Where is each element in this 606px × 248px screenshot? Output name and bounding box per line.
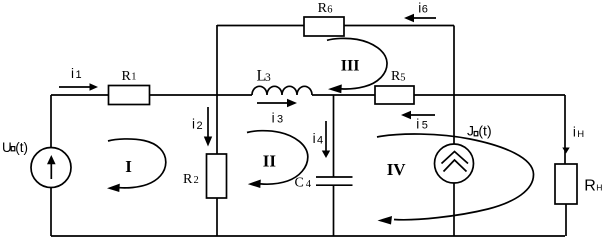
svg-text:J: J bbox=[467, 123, 474, 139]
capacitor C4 bbox=[295, 176, 353, 191]
wire: main horizontal, source to R1 bbox=[51, 94, 108, 96]
svg-text:IV: IV bbox=[387, 160, 407, 179]
mesh loop II bbox=[247, 131, 308, 188]
mesh loop III bbox=[327, 38, 387, 93]
resistor R5 bbox=[375, 69, 414, 104]
current arrow i6 bbox=[404, 1, 436, 23]
svg-text:H: H bbox=[577, 129, 584, 140]
resistor R2 bbox=[183, 154, 227, 198]
svg-text:5: 5 bbox=[400, 72, 405, 83]
svg-text:3: 3 bbox=[277, 114, 283, 126]
svg-text:4: 4 bbox=[306, 179, 312, 190]
svg-text:I: I bbox=[125, 157, 132, 176]
current arrow i3 bbox=[257, 99, 297, 126]
mesh loop I bbox=[107, 139, 166, 192]
label U0(t) bbox=[2, 140, 28, 155]
svg-text:5: 5 bbox=[422, 120, 428, 132]
current arrow i2 bbox=[192, 107, 212, 147]
svg-text:III: III bbox=[341, 58, 360, 75]
svg-text:3: 3 bbox=[265, 72, 271, 84]
current source J0(t) bbox=[435, 95, 474, 236]
svg-text:C: C bbox=[295, 176, 304, 191]
wire: R1 to L3 (through node at x=217) bbox=[150, 94, 253, 96]
svg-text:2: 2 bbox=[194, 175, 199, 186]
svg-text:R: R bbox=[122, 69, 132, 84]
wire: top horizontal left of R6 bbox=[217, 25, 304, 27]
svg-text:i: i bbox=[573, 125, 576, 140]
svg-text:R: R bbox=[318, 1, 328, 16]
current arrow i1 bbox=[59, 66, 98, 91]
resistor R1 bbox=[109, 69, 150, 105]
svg-text:6: 6 bbox=[422, 4, 428, 16]
wire: C4 branch upper segment bbox=[333, 95, 335, 177]
svg-text:4: 4 bbox=[317, 134, 323, 146]
svg-text:II: II bbox=[263, 152, 277, 171]
resistor RH bbox=[555, 164, 602, 204]
voltage source U0(t) bbox=[31, 95, 71, 236]
wire: R2 branch upper segment bbox=[216, 95, 218, 154]
svg-text:i: i bbox=[313, 131, 316, 146]
svg-text:U: U bbox=[2, 140, 12, 155]
wire: L3 to R5 (through node at x=333) bbox=[312, 94, 375, 96]
svg-text:2: 2 bbox=[197, 120, 203, 132]
wire: C4 branch lower segment bbox=[333, 185, 335, 236]
wire: RH branch upper segment bbox=[564, 95, 566, 164]
svg-text:6: 6 bbox=[327, 4, 332, 15]
svg-text:R: R bbox=[183, 172, 193, 187]
current arrow i4 bbox=[313, 121, 331, 158]
wire: R5 to right corner (through node at x=455) bbox=[414, 94, 565, 96]
mesh loop IV bbox=[377, 134, 534, 224]
svg-text:1: 1 bbox=[131, 72, 136, 83]
svg-text:H: H bbox=[596, 183, 602, 193]
current arrow iH bbox=[562, 125, 584, 154]
svg-text:1: 1 bbox=[76, 69, 82, 81]
svg-text:i: i bbox=[416, 116, 419, 131]
resistor R6 bbox=[304, 1, 344, 36]
svg-text:i: i bbox=[71, 66, 74, 81]
wire: top left vertical from node (217,95) up to top wire bbox=[216, 25, 218, 95]
current arrow i5 bbox=[401, 111, 435, 132]
svg-text:(t): (t) bbox=[15, 140, 28, 155]
label J0(t) bbox=[467, 123, 492, 139]
svg-text:i: i bbox=[272, 110, 275, 125]
svg-text:i: i bbox=[192, 117, 195, 132]
inductor L3 bbox=[252, 68, 312, 96]
wire: top horizontal right of R6 bbox=[344, 25, 454, 27]
wire: RH branch lower segment bbox=[565, 204, 567, 236]
wire: top right vertical down to main wire bbox=[453, 26, 455, 96]
wire: bottom horizontal bbox=[51, 235, 565, 237]
svg-text:R: R bbox=[584, 178, 596, 195]
svg-text:(t): (t) bbox=[478, 123, 491, 139]
wire: R2 branch lower segment bbox=[216, 198, 218, 236]
